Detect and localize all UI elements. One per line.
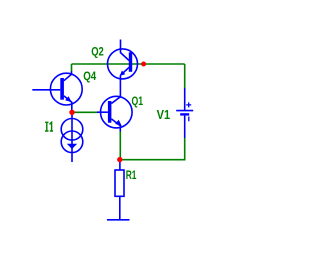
svg-text:Q1: Q1 [132,94,144,108]
svg-text:Q2: Q2 [91,45,104,59]
svg-text:R1: R1 [126,168,137,182]
svg-text:V1: V1 [157,107,171,122]
svg-text:Q4: Q4 [83,69,96,83]
